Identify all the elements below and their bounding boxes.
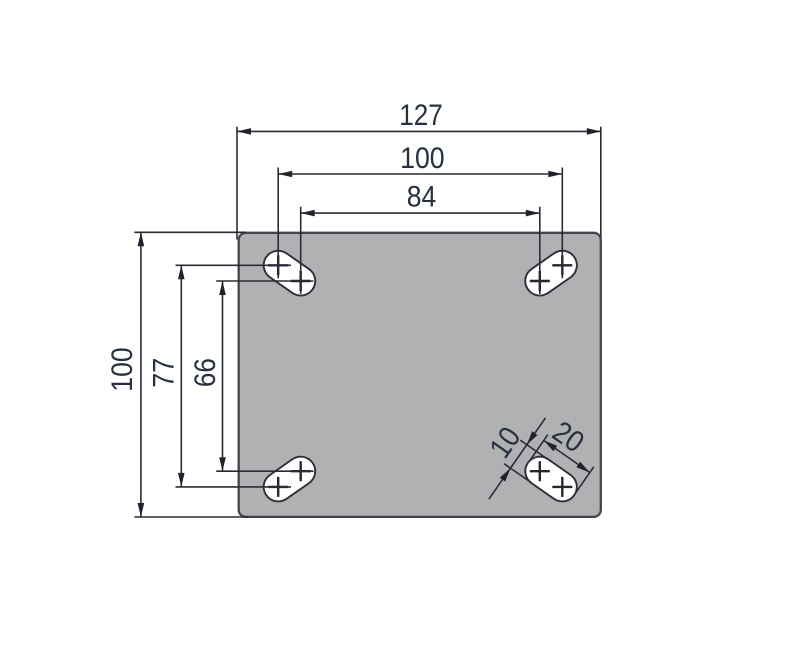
extension line dim100left bottom: [134, 516, 248, 518]
extension line dim100left top: [134, 231, 246, 233]
dimension line 100 top with arrowheads: [278, 171, 562, 178]
svg-text:100: 100: [400, 142, 445, 175]
extension line dim77 bottom: [176, 486, 292, 488]
extension line dim66 top: [216, 280, 313, 282]
extension line dim66 bottom: [216, 470, 313, 472]
mounting plate body: [239, 233, 601, 517]
hole centre cross top-left inner: [291, 271, 311, 291]
extension line dim127 left: [236, 127, 238, 240]
hole centre cross bottom-right inner: [530, 461, 550, 481]
svg-text:100: 100: [106, 347, 139, 392]
extension line dim20 lower-right: [575, 467, 594, 494]
extension line dim10 upper (slot side tangent): [520, 440, 548, 459]
dimension line 77 with arrowheads: [178, 265, 185, 487]
extension line dim84 left: [300, 207, 302, 294]
hole centre cross bottom-left outer: [268, 477, 288, 497]
bolt slot bottom-right: [540, 471, 563, 487]
extension line dim77 top: [176, 264, 292, 266]
dimension line 20 (slot length, diagonal) with arrowheads: [544, 441, 590, 473]
dimension line 100 left with arrowheads: [138, 232, 145, 517]
extension line dim100top left: [277, 168, 279, 279]
extension line dim127 right: [600, 127, 602, 238]
extension line dim100top right: [561, 168, 563, 279]
dimension line 127 with arrowheads: [237, 128, 601, 135]
extension line dim84 right: [539, 207, 541, 294]
hole centre cross top-right inner: [530, 271, 550, 291]
bolt slot top-left: [278, 265, 301, 281]
extension line dim10 lower (slot side tangent): [504, 464, 532, 483]
svg-text:127: 127: [399, 99, 443, 132]
bolt slot top-right: [540, 265, 563, 281]
svg-text:66: 66: [189, 358, 222, 387]
svg-text:77: 77: [148, 358, 181, 388]
svg-text:84: 84: [407, 181, 437, 214]
hole centre cross bottom-left inner: [291, 461, 311, 481]
dimension line 10 (slot width, diagonal) with arrowheads: [489, 418, 546, 499]
dimension line 84 with arrowheads: [301, 210, 540, 217]
hole centre cross top-right outer: [552, 255, 572, 275]
dimension line 66 with arrowheads: [219, 281, 226, 471]
hole centre cross bottom-right outer: [552, 477, 572, 497]
hole centre cross top-left outer: [268, 255, 288, 275]
bolt slot bottom-left: [278, 471, 301, 487]
extension line dim20 upper-left: [529, 435, 548, 462]
